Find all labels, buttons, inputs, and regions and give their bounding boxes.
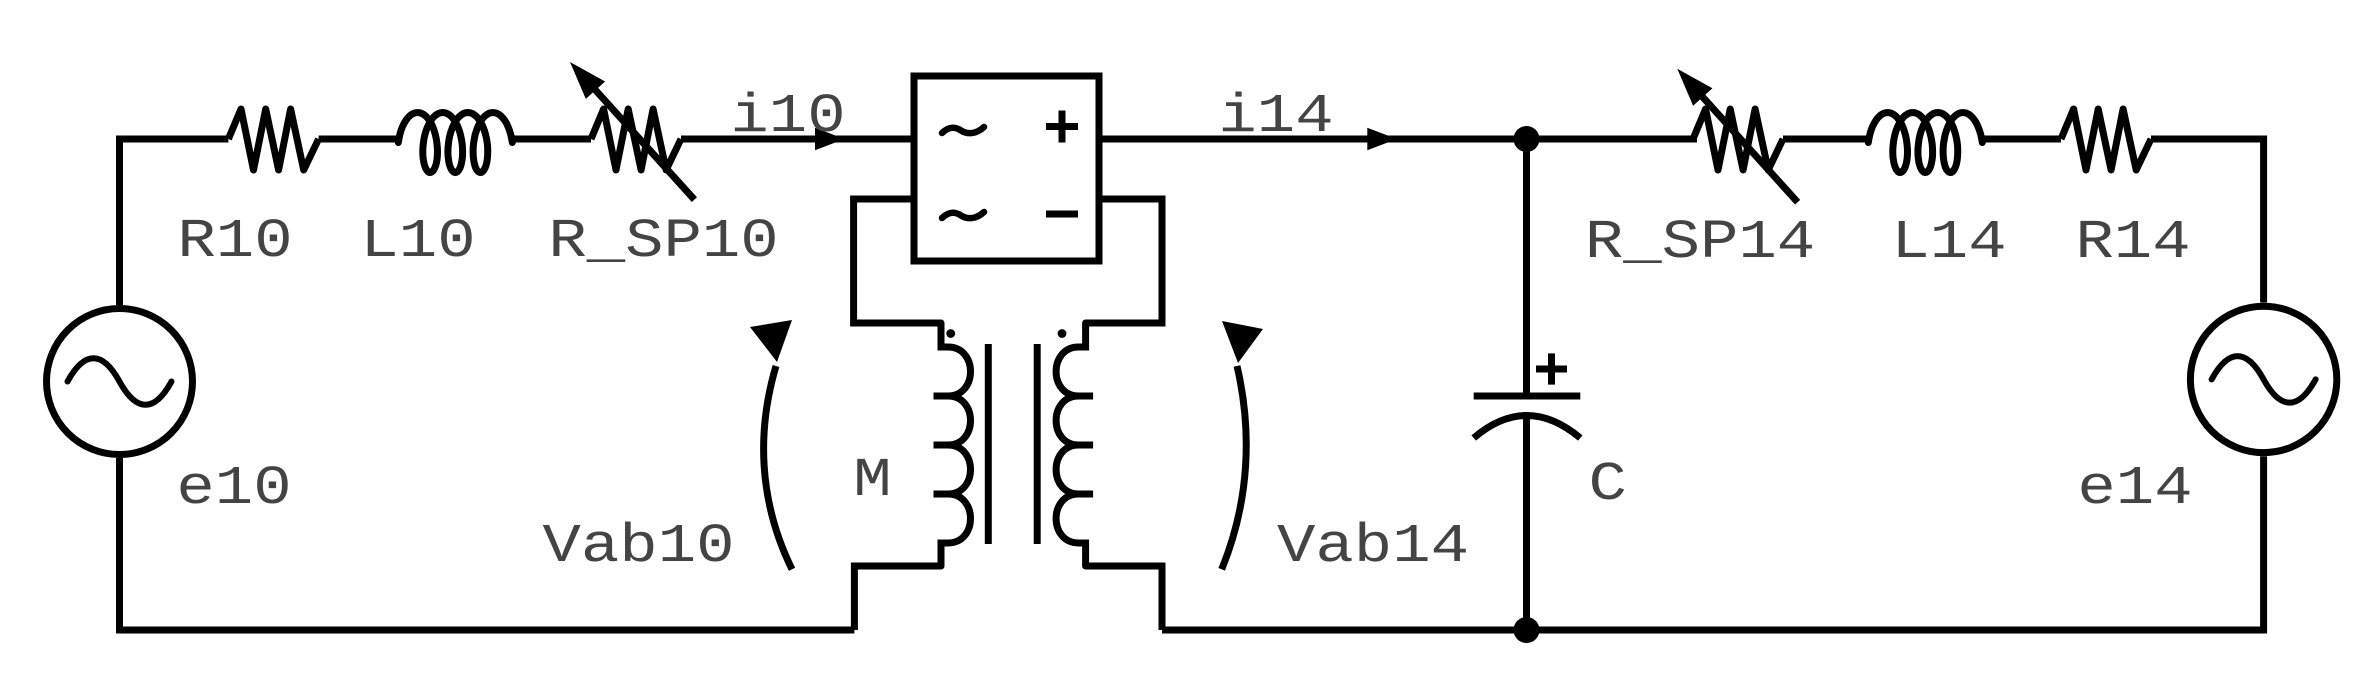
- wire L14-R14: [1982, 136, 2061, 143]
- wire R_SP14-L14: [1783, 136, 1868, 143]
- svg-text:i14: i14: [1218, 85, 1333, 148]
- variable resistor R_SP10: [570, 62, 694, 200]
- voltage source e10: [47, 309, 193, 455]
- wire box to transformer left: [854, 199, 941, 323]
- node dot bottom: [1514, 617, 1540, 643]
- voltage arrow Vab10: [750, 320, 792, 569]
- svg-text:e10: e10: [176, 457, 291, 520]
- wire R_SP10 to box: [681, 136, 914, 143]
- resistor R10: [228, 109, 318, 170]
- svg-text:Vab10: Vab10: [543, 515, 735, 578]
- voltage source e14: [2190, 306, 2336, 452]
- transformer secondary winding: [1056, 323, 1086, 566]
- current arrow i14: [1367, 128, 1397, 150]
- wire transformer right bottom: [1086, 566, 1162, 630]
- inductor L14: [1868, 113, 1982, 173]
- node dot top: [1514, 126, 1540, 152]
- svg-text:L14: L14: [1891, 211, 2006, 274]
- variable resistor R_SP14: [1677, 69, 1797, 202]
- wire: bottom-right rail: [1162, 456, 2264, 630]
- wire L10-R_SP10: [512, 136, 591, 143]
- svg-text:e14: e14: [2077, 457, 2192, 520]
- svg-text:R10: R10: [177, 210, 292, 273]
- box symbol ~ top: [942, 127, 984, 133]
- svg-text:C: C: [1589, 453, 1627, 516]
- svg-text:R_SP14: R_SP14: [1585, 211, 1815, 274]
- svg-text:L10: L10: [360, 210, 475, 273]
- capacitor + polarity: [1536, 353, 1567, 384]
- svg-text:R_SP10: R_SP10: [548, 210, 778, 273]
- polarity dot right: [1058, 329, 1067, 338]
- wire transformer left bottom: [854, 566, 941, 630]
- capacitor C: [1474, 139, 1581, 630]
- svg-text:R14: R14: [2075, 211, 2190, 274]
- polarity dot left: [946, 329, 955, 338]
- wire: top-right rail: [2151, 139, 2264, 303]
- transformer primary winding: [941, 323, 971, 566]
- box symbol ~ bottom: [942, 212, 984, 218]
- transformer core: [988, 344, 1037, 544]
- box symbol -: [1046, 211, 1078, 218]
- svg-text:i10: i10: [730, 85, 845, 148]
- resistor R14: [2061, 109, 2151, 170]
- wire box to node: [1099, 136, 1697, 143]
- wire R10-L10: [319, 136, 399, 143]
- svg-text:Vab14: Vab14: [1277, 515, 1469, 578]
- box symbol +: [1046, 111, 1078, 143]
- svg-text:M: M: [853, 449, 891, 512]
- wire box to transformer right: [1086, 199, 1162, 323]
- wire: top-left rail: [120, 139, 229, 305]
- voltage arrow Vab14: [1222, 321, 1263, 569]
- inductor L10: [398, 113, 512, 173]
- wire: bottom-left rail: [120, 458, 855, 630]
- converter box U1: [914, 76, 1099, 261]
- current arrow i10: [815, 128, 845, 150]
